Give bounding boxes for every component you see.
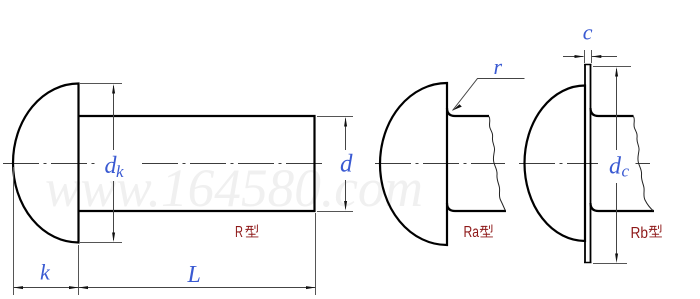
extension line k/L middle <box>78 245 80 295</box>
arrow d_k up <box>112 84 115 94</box>
flange plate right line <box>590 65 592 263</box>
arrow L right <box>306 286 316 289</box>
dimension line c right <box>592 56 617 58</box>
arrow c left-pointing <box>592 55 602 58</box>
flange plate left line <box>584 65 586 263</box>
svg-text:k: k <box>40 260 51 285</box>
Rb-type shank with fillets <box>591 108 655 211</box>
svg-text:d: d <box>340 151 353 178</box>
label 型 of R型 <box>246 225 258 237</box>
extension line d_k bottom <box>80 242 122 244</box>
svg-text:www.164580.com: www.164580.com <box>45 158 423 218</box>
arrow d_c down <box>615 254 618 264</box>
arrow L left <box>79 286 89 289</box>
svg-text:Rb: Rb <box>631 225 649 242</box>
svg-text:d: d <box>609 154 622 180</box>
svg-text:k: k <box>116 162 124 181</box>
extension line d_k top <box>80 83 122 85</box>
leader line r <box>453 79 525 111</box>
break line figure 3 <box>634 117 654 212</box>
extension line k left <box>13 167 15 295</box>
R-type rivet shank outline <box>79 116 315 211</box>
svg-text:R: R <box>235 224 243 241</box>
extension line d_c bottom <box>593 263 627 265</box>
label 型 of Ra型 <box>480 225 492 237</box>
label 型 of Rb型 <box>649 225 661 237</box>
svg-text:c: c <box>622 162 630 181</box>
dimension line L <box>79 287 316 289</box>
extension lines c <box>585 50 592 63</box>
svg-text:Ra: Ra <box>464 224 480 241</box>
arrow r leader <box>453 104 462 110</box>
svg-text:L: L <box>187 262 201 288</box>
centerline figure 3 <box>519 163 650 165</box>
arrow d down <box>344 201 347 211</box>
flange plate bottom edge <box>584 262 592 264</box>
flange plate top edge <box>584 64 592 66</box>
dimension line d_k <box>113 86 115 240</box>
arrow d_k down <box>112 233 115 243</box>
break line figure 2 <box>489 117 506 212</box>
arrow d up <box>344 117 347 127</box>
arrow d_c up <box>615 67 618 77</box>
dimension line d_c <box>616 69 618 260</box>
R-type rivet head outline <box>13 84 79 243</box>
dimension line d <box>345 119 347 209</box>
extension line L right <box>315 213 317 295</box>
svg-text:r: r <box>494 54 503 79</box>
extension line d bottom <box>317 211 353 213</box>
extension line d_c top <box>593 66 631 68</box>
centerline figure 2 <box>375 163 505 165</box>
extension line d top <box>317 116 353 118</box>
Rb-type rivet head outline <box>525 86 586 242</box>
dimension line k <box>14 287 79 289</box>
svg-text:c: c <box>583 19 593 44</box>
arrow k left <box>14 286 24 289</box>
Ra-type rivet head outline <box>380 83 447 245</box>
dimension line c left <box>563 56 584 58</box>
arrow k right <box>69 286 79 289</box>
Ra-type shank with fillets <box>447 108 506 211</box>
centerline figure 1 <box>3 163 322 165</box>
arrow c right-pointing <box>575 55 585 58</box>
